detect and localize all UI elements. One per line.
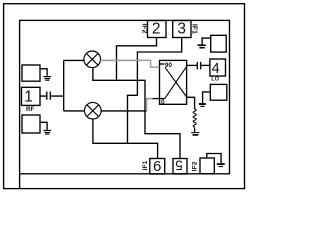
pin 3 box [173,21,191,38]
mixer M2 (lower) [85,102,102,119]
pad P_R2 (right ground pad below pin 4) [210,84,227,100]
wire mixer M2 jog to 0 port (gray) [147,99,153,111]
wire pad P_R2 to ground [203,92,211,103]
svg-text:2: 2 [152,21,161,38]
wire pad P_TL to ground [40,69,47,76]
wire IF2 net: mixer M1 output to pin 5 [93,68,180,159]
wire RF splitter node vertical [63,60,65,111]
resistor R1 (termination) [193,109,196,127]
ground (bottom-left) [43,130,51,134]
mixer M1 (upper) [84,51,101,68]
ground (right, below pin 4) [199,103,206,105]
pin 2 box [148,21,167,38]
wire capacitor C2 to pin 4 [201,64,210,66]
gray wires [100,60,159,111]
svg-text:RF: RF [26,106,35,113]
svg-text:6: 6 [153,158,161,175]
ground (bottom-right) [217,163,225,165]
pad P_BR (bottom-right ground pad) [200,158,214,174]
wire RF node to mixer M2 [64,110,85,112]
ground (top-right) [198,44,206,46]
wire hybrid isolated port to resistor R1 [187,97,195,109]
wire RF node to mixer M1 [64,59,84,61]
svg-text:4: 4 [212,61,220,77]
wire pin 3 to IF1 line [128,38,182,144]
pin 1 (RF input pad) [22,87,41,105]
wire resistor R1 to ground [194,127,196,132]
wire pad P_BR to ground [207,154,221,164]
pin 4 box (LO input) [210,59,226,76]
svg-text:LO: LO [211,76,219,82]
wire IF1 net: mixer M2 output to pin 6 [93,119,158,159]
capacitor C2 plates (LO) [197,62,200,70]
pad P_TR (top-right ground pad) [211,35,227,52]
svg-text:90: 90 [165,62,173,69]
ground (resistor termination) [191,132,199,134]
wire pad P_TR to ground [202,38,211,45]
svg-text:1: 1 [24,89,33,106]
quadrature hybrid U1 [160,60,187,104]
chip outline left edge extension [19,174,21,189]
ground (top-left) [43,77,51,81]
90-port stub [160,63,165,65]
wire hybrid to capacitor C2 [187,64,198,66]
pad P_BL (bottom-left ground pad) [22,115,40,133]
svg-text:3: 3 [177,21,186,38]
svg-text:5: 5 [175,158,183,173]
capacitor C1 leads (RF) [40,95,64,97]
svg-text:IF2: IF2 [191,161,198,171]
wire pad P_BL to ground [40,122,47,130]
svg-text:IF1: IF1 [191,24,198,34]
pad P_TL (top-left ground pad) [22,65,40,81]
chip outline (inner rectangle) [20,20,230,173]
capacitor C1 plates [47,92,51,100]
wire mixer M1 to hybrid 90 port (gray) [100,60,159,67]
wire mixer M2 to hybrid 0 port [101,110,147,112]
outer border frame [4,4,245,189]
wire pin 2 to IF2 line [117,38,157,81]
svg-text:IF2: IF2 [140,23,147,33]
wire 0-port stub [152,98,165,100]
svg-text:0: 0 [161,99,165,106]
svg-text:IF1: IF1 [142,160,149,170]
pin 5 box [173,159,187,175]
pin 6 box [150,159,165,175]
